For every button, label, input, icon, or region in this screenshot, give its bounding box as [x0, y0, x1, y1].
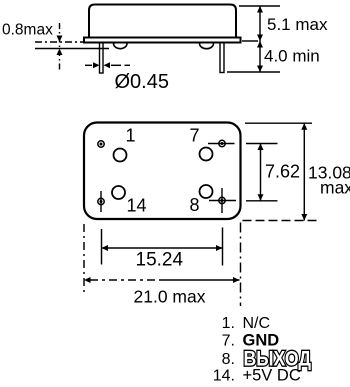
dimension 7.62: extension line at pin 7 [246, 143, 278, 145]
dimension 13.08 max: extension line top [245, 122, 312, 124]
dimension 4.0 min: bottom arrowhead down [257, 66, 263, 73]
svg-text:1: 1 [126, 126, 136, 146]
svg-text:5.1 max: 5.1 max [267, 15, 328, 34]
dimension 0.8 max: up arrowhead [57, 49, 63, 56]
dimension 15.24: dimension line [102, 247, 223, 249]
svg-text:14: 14 [127, 196, 147, 216]
pin 8 centerline vertical [221, 188, 223, 213]
side view: oscillator can body [89, 5, 236, 38]
dimension 21.0 max: dimension line solid right part [162, 279, 240, 281]
svg-text:max: max [320, 178, 350, 198]
svg-text:8: 8 [190, 195, 200, 215]
dimension 15.24: extension line from pin 8 [222, 228, 224, 266]
pin 1 hole [98, 141, 104, 147]
dimension 5.1 max / 4.0 min: extension line middle [242, 40, 258, 42]
pin 7 insulator circle [200, 148, 213, 161]
svg-text:7: 7 [190, 126, 200, 146]
side view: right pin [220, 43, 224, 73]
svg-text:14.: 14. [213, 368, 235, 385]
svg-text:0.8max: 0.8max [2, 22, 53, 39]
dimension 5.1 max / 4.0 min: extension line bottom [227, 71, 280, 73]
dimension 0.8 max: dashed line at base bottom [35, 41, 85, 43]
pin 1 insulator circle [114, 149, 127, 162]
dimension 5.1 max: top arrowhead up [257, 6, 263, 13]
dimension 13.08 max: top arrowhead [301, 123, 307, 130]
svg-text:21.0 max: 21.0 max [134, 287, 206, 307]
bottom view: package outline [84, 123, 241, 220]
dimension 21.0 max: left arrowhead [84, 277, 91, 283]
pin 14 hole [98, 198, 104, 204]
svg-text:8.: 8. [222, 351, 235, 368]
pin 8 insulator circle [200, 185, 213, 198]
side view: right standoff bump [200, 44, 214, 49]
dimension 15.24: extension line from pin 14 [101, 229, 103, 265]
seating plane line [35, 48, 109, 50]
svg-text:7.: 7. [222, 333, 235, 350]
svg-text:15.24: 15.24 [136, 250, 184, 271]
pin 7 centerline [208, 143, 235, 145]
dimension 0.8 max: dash-dot witness line [59, 23, 61, 70]
pin 8 hole [219, 197, 225, 203]
dimension 13.08 max: extension line bottom dashed [243, 220, 319, 222]
dimension 7.62: top arrowhead [258, 144, 264, 151]
svg-text:1.: 1. [222, 315, 235, 332]
dimension dia 0.45: left arrow [85, 64, 92, 66]
dimension 4.0 min: arrowhead up at middle [257, 41, 263, 48]
dimension 21.0 max: left extension line dash-dot [83, 224, 85, 294]
dimension 7.62: bottom arrowhead [258, 194, 264, 201]
dimension dia 0.45: right arrow [104, 62, 111, 68]
dimension 7.62: vertical dimension line [260, 144, 262, 201]
dimension 13.08 max: vertical dimension line [303, 123, 305, 220]
svg-text:7.62: 7.62 [265, 162, 300, 182]
svg-text:4.0 min: 4.0 min [264, 47, 320, 66]
dimension 15.24: left arrowhead [102, 245, 109, 251]
svg-text:Ø0.45: Ø0.45 [115, 71, 169, 93]
side view: left standoff bump [114, 44, 128, 49]
dimension 21.0 max: right arrowhead [233, 277, 240, 283]
svg-text:+5V DC: +5V DC [243, 367, 301, 385]
dimension 21.0 max: dimension line dashed left part [90, 279, 162, 281]
side view: left pin [100, 43, 104, 74]
pin 8 centerline horizontal [209, 200, 236, 202]
pin 14 centerline [100, 191, 102, 212]
dimension 5.1 max / 4.0 min: extension line top [239, 5, 280, 7]
dimension 5.1 max: arrowhead down at middle [257, 35, 263, 42]
pin 14 insulator circle [112, 186, 125, 199]
dimension 7.62: extension line at pin 8 [246, 200, 278, 202]
dimension 5.1 max / 4.0 min: vertical dimension line [259, 6, 261, 72]
pin 7 hole [219, 140, 225, 146]
dimension 21.0 max: right extension line dash-dot [240, 223, 242, 307]
dimension 13.08 max: bottom arrowhead [301, 214, 307, 221]
side view: base flange [84, 38, 241, 43]
dimension 15.24: right arrowhead [216, 245, 223, 251]
dimension 0.8 max: down arrowhead [57, 36, 63, 43]
svg-text:N/C: N/C [243, 315, 271, 332]
